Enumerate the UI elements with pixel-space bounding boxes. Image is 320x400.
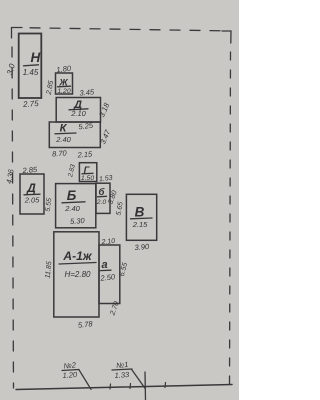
leader line from No2: [79, 370, 91, 390]
svg-text:2.85: 2.85: [44, 79, 56, 96]
boundary corner top-right: [222, 31, 231, 43]
svg-text:2.40: 2.40: [64, 204, 80, 213]
tick on bottom line: [109, 384, 112, 389]
building G small rectangle: [79, 163, 96, 182]
svg-text:А-1ж: А-1ж: [62, 249, 92, 263]
gate line at bottom: [144, 372, 147, 400]
svg-text:3.18: 3.18: [97, 101, 111, 119]
svg-text:4.36: 4.36: [4, 168, 16, 185]
svg-text:№1: №1: [116, 360, 129, 370]
underline of N label: [24, 65, 39, 66]
svg-text:6.55: 6.55: [117, 260, 130, 277]
tick on bottom line: [129, 384, 132, 389]
building N rectangle: [19, 34, 42, 99]
underline of B label: [62, 202, 85, 203]
boundary top dashed line: [30, 28, 222, 31]
svg-text:1.50: 1.50: [81, 175, 94, 182]
boundary bottom solid line: [16, 385, 232, 390]
underline of Zh label: [58, 85, 71, 88]
building a annex rectangle: [99, 245, 120, 304]
building D2 rectangle: [20, 174, 44, 214]
boundary corner top-left: [12, 28, 23, 39]
svg-text:1.80: 1.80: [56, 64, 72, 75]
building A-1zh main house rectangle: [54, 232, 99, 317]
tick on bottom line: [164, 383, 167, 388]
underline of D2 label: [24, 193, 40, 196]
svg-text:2.70: 2.70: [107, 300, 121, 317]
underline of No2 label: [62, 370, 79, 371]
svg-text:1.20: 1.20: [62, 370, 78, 380]
svg-text:5.78: 5.78: [78, 319, 94, 330]
svg-text:№2: №2: [63, 360, 77, 370]
underline of b label: [98, 195, 107, 198]
svg-text:2.15: 2.15: [76, 149, 93, 159]
underline of V label: [131, 217, 153, 220]
building K rectangle: [49, 122, 100, 148]
svg-text:2.05: 2.05: [24, 196, 40, 205]
svg-text:3.45: 3.45: [79, 87, 95, 97]
svg-text:Д: Д: [26, 181, 36, 195]
svg-text:2.10: 2.10: [100, 238, 115, 246]
building b small rectangle: [96, 183, 110, 213]
underline of G label: [82, 172, 93, 175]
svg-text:Ж: Ж: [58, 78, 68, 88]
svg-text:Н=2.80: Н=2.80: [64, 270, 91, 279]
svg-text:5.30: 5.30: [70, 216, 86, 226]
building B rectangle: [56, 184, 96, 228]
svg-text:1.20: 1.20: [57, 88, 70, 95]
svg-text:3.90: 3.90: [134, 242, 150, 252]
svg-text:2.40: 2.40: [55, 135, 71, 144]
svg-text:2.50: 2.50: [99, 272, 116, 283]
svg-text:3.0: 3.0: [5, 62, 17, 76]
building Zh small rectangle: [56, 73, 73, 94]
underline of D label: [69, 109, 88, 110]
svg-text:1.33: 1.33: [114, 370, 130, 380]
underline of No1 label: [112, 369, 132, 370]
svg-text:Б: Б: [67, 188, 77, 203]
boundary left dashed line: [12, 47, 14, 388]
underline of K label: [55, 132, 76, 135]
building D rectangle: [56, 98, 100, 123]
boundary right dashed line: [230, 52, 231, 387]
svg-text:а: а: [101, 259, 107, 271]
underline of a label: [100, 269, 111, 271]
svg-text:1.53: 1.53: [99, 175, 113, 184]
svg-text:8.70: 8.70: [52, 148, 68, 158]
svg-text:К: К: [60, 123, 68, 135]
svg-text:2.15: 2.15: [132, 220, 148, 229]
svg-text:2.10: 2.10: [70, 109, 86, 118]
building V rectangle: [126, 194, 156, 240]
svg-text:2.85: 2.85: [21, 165, 38, 175]
svg-text:5.65: 5.65: [115, 201, 124, 216]
svg-text:5.25: 5.25: [78, 121, 94, 132]
svg-text:11.85: 11.85: [45, 261, 54, 279]
svg-text:1.45: 1.45: [23, 68, 39, 77]
leader line from No1: [132, 369, 145, 388]
underline of A-1zh label: [59, 263, 96, 265]
svg-text:В: В: [135, 205, 145, 220]
svg-text:2.75: 2.75: [22, 99, 40, 109]
svg-text:2.83: 2.83: [67, 163, 77, 178]
svg-text:Н: Н: [31, 50, 41, 65]
svg-text:5.55: 5.55: [45, 198, 54, 212]
